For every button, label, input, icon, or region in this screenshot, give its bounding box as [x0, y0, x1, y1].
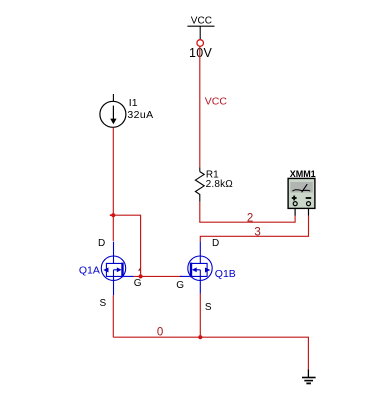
svg-text:Q1A: Q1A: [79, 265, 100, 277]
wire corner tick: [139, 268, 141, 270]
wire gate bus Q1A to Q1B: [134, 275, 183, 277]
svg-text:0: 0: [157, 327, 163, 339]
svg-text:I1: I1: [129, 97, 138, 109]
svg-text:2.8kΩ: 2.8kΩ: [206, 179, 234, 190]
wire VCC net (vertical from power to R1): [199, 46, 201, 167]
svg-text:3: 3: [254, 226, 260, 238]
svg-text:Q1B: Q1B: [215, 268, 236, 280]
wire net 2 (R1 bottom to multimeter +): [200, 202, 295, 223]
svg-text:10V: 10V: [189, 46, 213, 60]
svg-text:G: G: [176, 280, 184, 291]
current source I1: [100, 94, 126, 127]
wire I1 to Q1A drain: [112, 127, 114, 240]
junction at gate bus: [139, 274, 143, 278]
svg-text:S: S: [100, 298, 107, 309]
wire net 3 (multimeter - to Q1B drain): [200, 216, 308, 242]
wire Q1A source to ground rail: [112, 295, 114, 337]
svg-text:S: S: [205, 302, 212, 313]
transistor Q1A: [101, 242, 133, 296]
power symbol VCC: [187, 16, 214, 47]
svg-text:2: 2: [247, 213, 253, 225]
ground: [302, 370, 316, 384]
svg-text:G: G: [134, 278, 142, 289]
resistor R1: [195, 167, 204, 201]
wire drain-gate feedback: [113, 215, 140, 276]
svg-text:D: D: [98, 238, 105, 249]
svg-text:D: D: [212, 238, 219, 249]
transistor Q1B: [180, 242, 212, 294]
svg-text:VCC: VCC: [191, 16, 212, 27]
junction at Q1A drain: [110, 213, 116, 217]
multimeter XMM1: [288, 169, 316, 216]
junction at Q1B source: [198, 335, 202, 339]
wire net 0 rail: [113, 337, 308, 370]
svg-text:32uA: 32uA: [127, 109, 153, 121]
wire Q1B source to ground rail: [199, 294, 201, 338]
svg-text:VCC: VCC: [205, 96, 228, 108]
svg-text:XMM1: XMM1: [290, 169, 316, 179]
